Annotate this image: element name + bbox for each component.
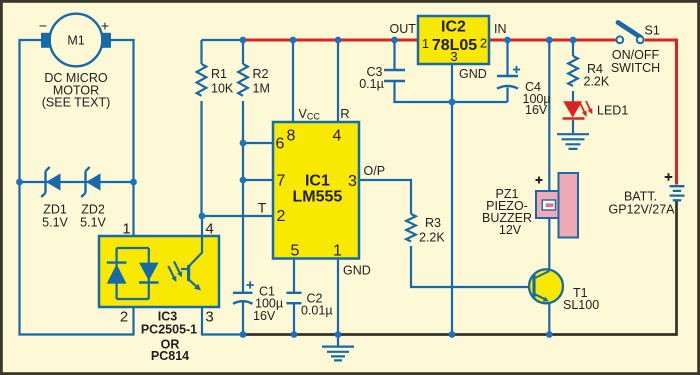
svg-text:5.1V: 5.1V	[42, 216, 68, 230]
svg-text:16V: 16V	[253, 309, 276, 323]
svg-text:1: 1	[422, 36, 429, 51]
svg-text:ZD2: ZD2	[81, 203, 105, 217]
svg-text:2: 2	[480, 36, 487, 51]
svg-text:6: 6	[276, 136, 285, 153]
svg-text:5.1V: 5.1V	[80, 216, 106, 230]
svg-text:4: 4	[333, 128, 342, 145]
svg-text:ZD1: ZD1	[43, 203, 67, 217]
svg-text:R1: R1	[211, 67, 227, 81]
svg-text:BATT.: BATT.	[624, 190, 657, 204]
svg-text:ON/OFF: ON/OFF	[612, 48, 660, 62]
svg-text:S1: S1	[645, 24, 660, 38]
svg-text:T: T	[258, 200, 267, 216]
svg-text:1M: 1M	[253, 81, 270, 95]
svg-text:R: R	[340, 106, 349, 121]
svg-text:IC3: IC3	[158, 310, 178, 324]
svg-text:R2: R2	[253, 67, 269, 81]
svg-text:IN: IN	[494, 22, 507, 36]
svg-text:3: 3	[348, 173, 357, 190]
svg-text:GND: GND	[343, 264, 371, 278]
svg-text:10K: 10K	[211, 81, 234, 95]
svg-text:1: 1	[333, 243, 342, 260]
svg-text:O/P: O/P	[364, 164, 386, 178]
svg-text:LED1: LED1	[597, 104, 628, 118]
svg-text:GND: GND	[459, 67, 487, 81]
svg-text:5: 5	[291, 243, 300, 260]
svg-text:8: 8	[287, 128, 296, 145]
svg-text:2: 2	[277, 208, 286, 225]
svg-text:7: 7	[277, 173, 286, 190]
svg-text:IC2: IC2	[441, 19, 466, 36]
svg-text:0.1µ: 0.1µ	[359, 77, 384, 91]
svg-text:1: 1	[122, 221, 130, 238]
svg-text:SWITCH: SWITCH	[611, 61, 660, 75]
svg-text:0.01µ: 0.01µ	[301, 304, 333, 318]
svg-text:2: 2	[120, 309, 128, 326]
svg-text:(SEE TEXT): (SEE TEXT)	[42, 96, 111, 110]
svg-text:OUT: OUT	[390, 22, 417, 36]
svg-text:R3: R3	[425, 216, 441, 230]
svg-text:3: 3	[450, 49, 457, 64]
svg-text:2.2K: 2.2K	[419, 230, 445, 244]
svg-text:M1: M1	[67, 34, 84, 48]
svg-text:−: −	[39, 18, 47, 34]
svg-text:IC1: IC1	[305, 173, 330, 190]
svg-text:+: +	[101, 18, 109, 34]
svg-text:SL100: SL100	[563, 298, 599, 312]
svg-text:PC814: PC814	[151, 349, 189, 363]
svg-text:4: 4	[205, 221, 213, 238]
svg-text:3: 3	[205, 309, 213, 326]
svg-text:2.2K: 2.2K	[584, 75, 610, 89]
svg-text:16V: 16V	[525, 103, 548, 117]
svg-text:LM555: LM555	[293, 189, 343, 206]
svg-text:GP12V/27A: GP12V/27A	[608, 203, 675, 217]
svg-text:12V: 12V	[499, 223, 522, 237]
svg-text:PC2505-1: PC2505-1	[141, 323, 197, 337]
